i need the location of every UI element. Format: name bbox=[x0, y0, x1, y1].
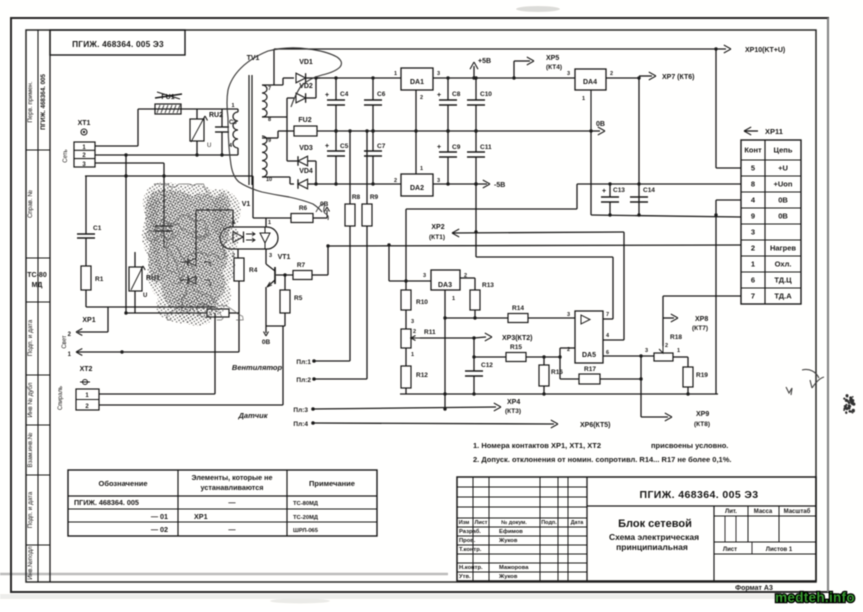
svg-text:C13: C13 bbox=[613, 187, 625, 194]
svg-text:Мажорова: Мажорова bbox=[499, 565, 529, 571]
svg-text:DA5: DA5 bbox=[582, 352, 596, 359]
svg-text:Пров.: Пров. bbox=[459, 538, 476, 544]
svg-text:Пл:4: Пл:4 bbox=[293, 421, 308, 428]
svg-text:ТС-20МД: ТС-20МД bbox=[293, 515, 319, 521]
svg-text:(КТ4): (КТ4) bbox=[546, 64, 562, 71]
svg-text:8: 8 bbox=[751, 180, 755, 189]
svg-text:(КТ8): (КТ8) bbox=[694, 421, 710, 428]
svg-text:1: 1 bbox=[751, 260, 755, 269]
svg-text:Охл.: Охл. bbox=[775, 260, 792, 269]
svg-text:R17: R17 bbox=[584, 366, 596, 373]
svg-text:+: + bbox=[437, 144, 441, 151]
svg-text:R16: R16 bbox=[551, 369, 563, 376]
svg-text:1: 1 bbox=[677, 348, 680, 354]
svg-text:Лит.: Лит. bbox=[725, 509, 737, 515]
svg-text:R19: R19 bbox=[696, 372, 708, 379]
svg-text:C6: C6 bbox=[377, 91, 386, 98]
svg-text:DA3: DA3 bbox=[438, 282, 452, 289]
svg-text:Схема электрическая: Схема электрическая bbox=[609, 532, 699, 542]
svg-text:DA2: DA2 bbox=[410, 185, 424, 192]
svg-text:Разраб.: Разраб. bbox=[459, 528, 481, 535]
svg-text:2: 2 bbox=[567, 347, 570, 353]
svg-text:Взам.инв.№: Взам.инв.№ bbox=[27, 432, 34, 467]
svg-text:Жуков: Жуков bbox=[498, 538, 518, 544]
svg-text:1: 1 bbox=[231, 103, 234, 109]
svg-text:XP9: XP9 bbox=[696, 411, 709, 418]
svg-text:VD1: VD1 bbox=[299, 59, 313, 66]
svg-text:устанавливаются: устанавливаются bbox=[201, 483, 264, 492]
svg-text:7: 7 bbox=[751, 292, 755, 301]
svg-text:RU2: RU2 bbox=[209, 112, 223, 119]
svg-text:XP8: XP8 bbox=[695, 316, 708, 323]
svg-text:Т.контр.: Т.контр. bbox=[459, 547, 482, 553]
svg-text:Инв № дубл: Инв № дубл bbox=[27, 382, 34, 417]
svg-text:Формат А3: Формат А3 bbox=[735, 585, 773, 592]
svg-text:-5В: -5В bbox=[494, 182, 505, 189]
svg-text:Жуков: Жуков bbox=[498, 574, 518, 580]
svg-text:Датчик: Датчик bbox=[237, 411, 268, 420]
svg-text:R15: R15 bbox=[510, 344, 522, 351]
svg-text:0В: 0В bbox=[778, 196, 788, 205]
svg-text:3: 3 bbox=[645, 348, 648, 354]
svg-text:9: 9 bbox=[751, 212, 755, 221]
svg-text:1: 1 bbox=[452, 296, 455, 302]
svg-text:7: 7 bbox=[606, 312, 609, 318]
svg-text:R9: R9 bbox=[370, 194, 379, 201]
svg-text:Дата: Дата bbox=[571, 520, 585, 526]
svg-text:— 02: — 02 bbox=[151, 525, 168, 534]
svg-text:№ докум.: № докум. bbox=[501, 520, 527, 526]
svg-text:C7: C7 bbox=[377, 143, 386, 150]
svg-text:Обозначение: Обозначение bbox=[98, 479, 147, 488]
svg-text:3: 3 bbox=[437, 71, 440, 77]
svg-text:МД: МД bbox=[32, 282, 43, 289]
svg-text:XP7 (КТ6): XP7 (КТ6) bbox=[662, 74, 694, 81]
svg-text:ПГИЖ. 468364. 005: ПГИЖ. 468364. 005 bbox=[74, 498, 139, 507]
svg-text:C10: C10 bbox=[480, 91, 492, 98]
svg-text:+: + bbox=[325, 92, 329, 99]
svg-text:C4: C4 bbox=[340, 91, 349, 98]
svg-text:2: 2 bbox=[394, 178, 397, 184]
svg-text:R10: R10 bbox=[416, 299, 428, 306]
svg-text:9: 9 bbox=[268, 138, 271, 144]
svg-text:5: 5 bbox=[751, 164, 755, 173]
svg-text:R5: R5 bbox=[294, 295, 303, 302]
svg-text:ПГИЖ. 468364. 005 Э3: ПГИЖ. 468364. 005 Э3 bbox=[640, 489, 759, 501]
svg-text:ПГИЖ. 468364. 005: ПГИЖ. 468364. 005 bbox=[40, 74, 47, 130]
svg-text:R1: R1 bbox=[95, 276, 104, 283]
svg-text:Справ. №: Справ. № bbox=[27, 190, 34, 218]
svg-text:3: 3 bbox=[567, 312, 570, 318]
svg-text:Листов 1: Листов 1 bbox=[766, 547, 793, 553]
svg-text:XT2: XT2 bbox=[80, 366, 93, 373]
svg-text:Лист: Лист bbox=[723, 547, 737, 553]
svg-text:ТД.Ц: ТД.Ц bbox=[774, 276, 792, 285]
svg-text:(КТ1): (КТ1) bbox=[429, 234, 445, 241]
svg-text:FU2: FU2 bbox=[298, 117, 311, 124]
svg-text:+: + bbox=[325, 143, 329, 150]
svg-text:Изм: Изм bbox=[459, 520, 470, 526]
svg-text:R12: R12 bbox=[416, 372, 428, 379]
svg-text:2: 2 bbox=[413, 329, 416, 335]
svg-text:—: — bbox=[228, 525, 236, 534]
svg-text:Перв. примен.: Перв. примен. bbox=[27, 81, 34, 122]
svg-text:Пл:2: Пл:2 bbox=[296, 377, 311, 384]
svg-text:R13: R13 bbox=[482, 282, 494, 289]
svg-text:medteh.info: medteh.info bbox=[775, 590, 855, 605]
svg-text:+U: +U bbox=[778, 164, 788, 173]
svg-text:0В: 0В bbox=[778, 212, 788, 221]
svg-text:R18: R18 bbox=[670, 334, 682, 341]
svg-text:Пл:3: Пл:3 bbox=[293, 407, 308, 414]
svg-text:Ефимов: Ефимов bbox=[499, 528, 523, 535]
svg-text:1: 1 bbox=[268, 220, 271, 226]
svg-text:2: 2 bbox=[751, 244, 755, 253]
svg-text:10: 10 bbox=[266, 177, 272, 183]
svg-text:Подп. и дата: Подп. и дата bbox=[27, 319, 34, 356]
svg-text:3: 3 bbox=[411, 319, 414, 325]
svg-text:присвоены условно.: присвоены условно. bbox=[651, 441, 728, 450]
svg-text:Масштаб: Масштаб bbox=[784, 508, 811, 515]
svg-text:Инв.№подл: Инв.№подл bbox=[27, 546, 34, 580]
svg-text:C9: C9 bbox=[452, 144, 461, 151]
svg-text:U: U bbox=[143, 293, 147, 299]
svg-text:1: 1 bbox=[394, 71, 397, 77]
svg-text:8: 8 bbox=[268, 117, 271, 123]
svg-text:1. Номера контактов XP1, XT1,: 1. Номера контактов XP1, XT1, XT2 bbox=[473, 441, 601, 450]
svg-text:ШРЛ-065: ШРЛ-065 bbox=[293, 528, 319, 534]
svg-text:принципиальная: принципиальная bbox=[616, 542, 688, 552]
svg-text:1: 1 bbox=[582, 96, 585, 102]
svg-text:ПГИЖ. 468364. 005 Э3: ПГИЖ. 468364. 005 Э3 bbox=[72, 39, 164, 49]
svg-text:XP4: XP4 bbox=[507, 399, 520, 406]
svg-text:Вентилятор: Вентилятор bbox=[232, 363, 283, 372]
svg-text:DA4: DA4 bbox=[583, 79, 597, 86]
svg-text:Блок сетевой: Блок сетевой bbox=[618, 518, 692, 530]
svg-text:2: 2 bbox=[420, 95, 423, 101]
svg-text:Н.контр.: Н.контр. bbox=[459, 565, 483, 571]
svg-text:R7: R7 bbox=[297, 262, 306, 269]
svg-text:V1: V1 bbox=[242, 201, 251, 208]
svg-text:Конт: Конт bbox=[744, 146, 762, 155]
svg-text:XP10(KT+U): XP10(KT+U) bbox=[745, 47, 785, 54]
svg-text:VD4: VD4 bbox=[299, 168, 313, 175]
svg-text:(КТ3): (КТ3) bbox=[505, 408, 521, 415]
svg-text:+: + bbox=[602, 188, 606, 195]
svg-text:ТС-80: ТС-80 bbox=[27, 272, 47, 279]
svg-text:Масса: Масса bbox=[754, 509, 773, 515]
svg-text:Примечание: Примечание bbox=[309, 479, 355, 488]
svg-text:Цепь: Цепь bbox=[774, 146, 793, 155]
svg-text:3: 3 bbox=[423, 273, 426, 279]
svg-text:VT1: VT1 bbox=[278, 254, 291, 261]
svg-text:3: 3 bbox=[269, 253, 272, 259]
svg-text:DA1: DA1 bbox=[410, 79, 424, 86]
svg-text:XP1: XP1 bbox=[82, 317, 95, 324]
svg-text:+5В: +5В bbox=[478, 58, 491, 65]
svg-text:Лист: Лист bbox=[475, 520, 488, 526]
svg-text:7: 7 bbox=[268, 86, 271, 92]
svg-text:XP1: XP1 bbox=[194, 512, 208, 521]
svg-text:Свет: Свет bbox=[62, 335, 68, 349]
svg-text:R14: R14 bbox=[512, 305, 524, 312]
svg-text:R11: R11 bbox=[424, 329, 436, 336]
svg-text:3: 3 bbox=[751, 228, 755, 237]
svg-text:—: — bbox=[228, 498, 236, 507]
svg-text:R4: R4 bbox=[249, 267, 258, 274]
svg-text:0В: 0В bbox=[262, 339, 271, 346]
svg-text:VD3: VD3 bbox=[299, 145, 313, 152]
svg-text:C11: C11 bbox=[480, 144, 492, 151]
svg-text:Спираль: Спираль bbox=[58, 386, 64, 410]
svg-text:0В: 0В bbox=[596, 121, 605, 128]
svg-text:R6: R6 bbox=[299, 205, 308, 212]
svg-text:6: 6 bbox=[751, 276, 755, 285]
svg-text:— 01: — 01 bbox=[151, 512, 168, 521]
svg-text:XP2: XP2 bbox=[431, 224, 444, 231]
svg-text:ТД.А: ТД.А bbox=[774, 292, 792, 301]
svg-text:3: 3 bbox=[567, 71, 570, 77]
svg-text:2: 2 bbox=[610, 71, 613, 77]
svg-text:Подп.: Подп. bbox=[541, 520, 557, 526]
svg-text:Подп. и дата: Подп. и дата bbox=[27, 491, 34, 528]
svg-text:+Uon: +Uon bbox=[774, 180, 793, 189]
svg-text:C1: C1 bbox=[93, 225, 102, 232]
svg-text:1: 1 bbox=[420, 166, 423, 172]
svg-text:XP3(КТ2): XP3(КТ2) bbox=[502, 335, 533, 342]
svg-text:Элементы, которые не: Элементы, которые не bbox=[191, 473, 272, 482]
svg-text:2. Допуск. отклонения от номин: 2. Допуск. отклонения от номин. сопротив… bbox=[473, 455, 731, 464]
svg-text:XP5: XP5 bbox=[546, 55, 559, 62]
svg-text:ТС-80МД: ТС-80МД bbox=[293, 501, 319, 507]
svg-text:3: 3 bbox=[437, 178, 440, 184]
svg-text:+: + bbox=[437, 92, 441, 99]
svg-text:U: U bbox=[207, 143, 211, 149]
svg-text:Пл:1: Пл:1 bbox=[296, 359, 311, 366]
svg-text:XT1: XT1 bbox=[78, 120, 91, 127]
svg-text:1: 1 bbox=[411, 352, 414, 358]
svg-text:C14: C14 bbox=[643, 187, 655, 194]
svg-text:Сеть: Сеть bbox=[63, 149, 69, 162]
svg-text:C12: C12 bbox=[481, 362, 493, 369]
svg-text:Утв.: Утв. bbox=[459, 574, 471, 580]
svg-text:(КТ7): (КТ7) bbox=[692, 325, 708, 332]
svg-text:XP6(КТ5): XP6(КТ5) bbox=[580, 422, 611, 429]
svg-text:R8: R8 bbox=[352, 194, 361, 201]
svg-text:2: 2 bbox=[665, 343, 668, 349]
svg-text:XP11: XP11 bbox=[765, 127, 783, 136]
svg-text:6: 6 bbox=[606, 350, 609, 356]
svg-text:Нагрев: Нагрев bbox=[770, 244, 796, 253]
svg-text:C5: C5 bbox=[340, 143, 349, 150]
svg-text:C8: C8 bbox=[452, 91, 461, 98]
